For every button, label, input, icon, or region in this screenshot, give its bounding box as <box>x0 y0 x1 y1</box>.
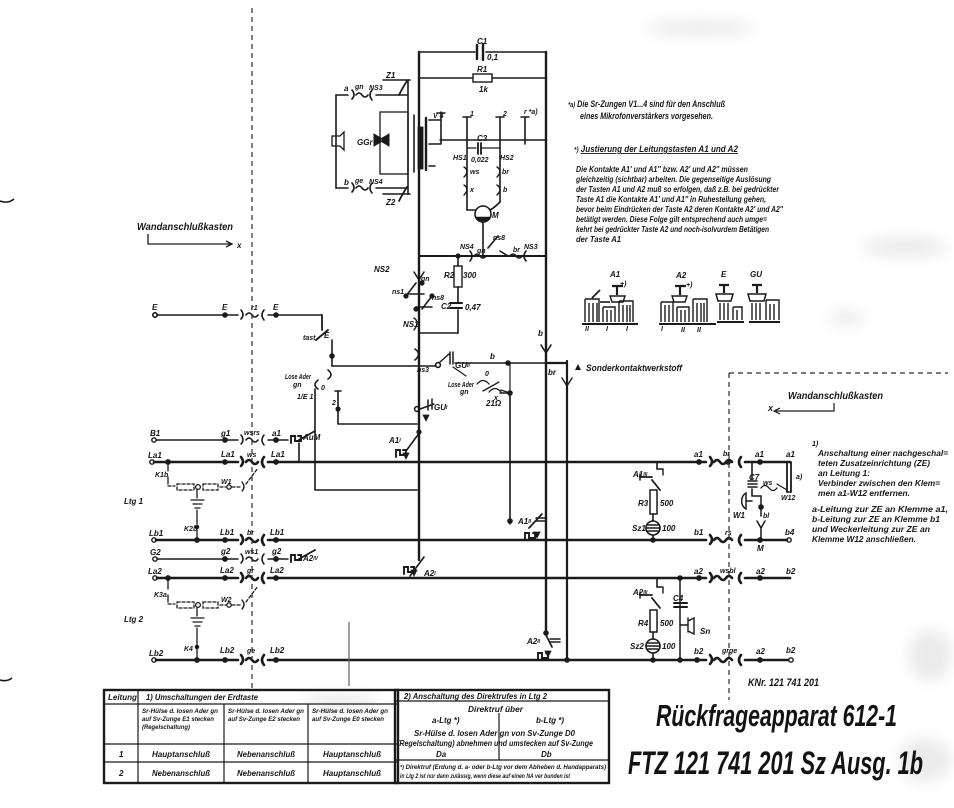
svg-text:K1b: K1b <box>155 472 169 479</box>
svg-text:Z2: Z2 <box>385 198 396 207</box>
svg-text:ns8: ns8 <box>493 235 505 242</box>
svg-text:La2: La2 <box>220 566 234 575</box>
svg-text:ws: ws <box>763 480 772 487</box>
svg-text:1/E 1: 1/E 1 <box>297 394 313 401</box>
svg-text:bevor beim Eindrücken der Tast: bevor beim Eindrücken der Taste A2 deren… <box>576 204 784 214</box>
svg-text:500: 500 <box>660 499 674 508</box>
svg-text:a2: a2 <box>756 647 765 656</box>
svg-text:r *a): r *a) <box>524 109 538 116</box>
svg-text:FTZ 121 741 201 Sz Ausg. 1b: FTZ 121 741 201 Sz Ausg. 1b <box>628 745 923 781</box>
svg-text:g2: g2 <box>220 547 231 556</box>
svg-text:2: 2 <box>331 400 336 407</box>
svg-text:C1: C1 <box>477 37 488 46</box>
svg-text:b1: b1 <box>694 528 704 537</box>
svg-text:auf Sv-Zunge E1 stecken: auf Sv-Zunge E1 stecken <box>142 716 214 723</box>
svg-text:Sr-Hülse d. losen Ader gn v: Sr-Hülse d. losen Ader gn von Sv-Zunge D… <box>414 729 576 738</box>
svg-text:AuM: AuM <box>302 433 321 442</box>
svg-text:M: M <box>492 211 499 220</box>
svg-text:Hauptanschluß: Hauptanschluß <box>323 750 381 759</box>
svg-text:b-Ltg *): b-Ltg *) <box>536 716 564 725</box>
svg-text:Sz1: Sz1 <box>632 524 646 533</box>
svg-text:2: 2 <box>118 769 124 778</box>
svg-text:b: b <box>344 178 349 187</box>
svg-text:+): +) <box>686 282 693 289</box>
svg-text:R1: R1 <box>477 65 488 74</box>
svg-text:Da: Da <box>436 750 447 759</box>
svg-text:Taste A1 die Kontakte A1′ und: Taste A1 die Kontakte A1′ und A1″ in Ruh… <box>576 194 766 204</box>
svg-text:Sz2: Sz2 <box>630 642 644 651</box>
svg-text:Ltg 2: Ltg 2 <box>124 615 144 624</box>
svg-text:a-Ltg *): a-Ltg *) <box>432 716 460 725</box>
svg-text:a: a <box>344 84 349 93</box>
svg-text:a1: a1 <box>272 429 281 438</box>
svg-text:21Ω: 21Ω <box>485 399 502 408</box>
svg-text:Lose Ader: Lose Ader <box>285 374 312 381</box>
svg-text:br: br <box>548 368 557 377</box>
svg-text:2: 2 <box>502 111 507 118</box>
svg-text:0,1: 0,1 <box>487 53 499 62</box>
svg-text:g2: g2 <box>271 547 282 556</box>
svg-text:Hauptanschluß: Hauptanschluß <box>323 769 381 778</box>
svg-text:gn: gn <box>476 248 486 255</box>
svg-text:gr: gr <box>246 568 255 575</box>
svg-text:La1: La1 <box>221 450 235 459</box>
svg-text:La1: La1 <box>271 450 285 459</box>
svg-text:x: x <box>767 403 774 413</box>
svg-text:an Leitung 1:: an Leitung 1: <box>818 468 870 478</box>
svg-text:Db: Db <box>541 750 552 759</box>
svg-text:500: 500 <box>660 619 674 628</box>
svg-text:und Weckerleitung zur ZE an: und Weckerleitung zur ZE an <box>812 524 930 534</box>
svg-text:auf Sv-Zunge E2 stecken: auf Sv-Zunge E2 stecken <box>228 716 300 723</box>
svg-text:NS4: NS4 <box>460 244 474 251</box>
svg-text:b: b <box>503 187 508 194</box>
svg-text:0,47: 0,47 <box>465 303 481 312</box>
svg-text:gn: gn <box>459 389 469 396</box>
svg-text:rs: rs <box>725 530 732 537</box>
svg-text:Sr-Hülse d. losen Ader gn: Sr-Hülse d. losen Ader gn <box>142 708 218 715</box>
svg-text:b: b <box>538 329 543 338</box>
svg-text:B1: B1 <box>150 429 161 438</box>
svg-text:ws1: ws1 <box>245 549 258 556</box>
svg-text:GU: GU <box>750 270 762 279</box>
svg-text:1: 1 <box>470 111 474 118</box>
svg-text:La1: La1 <box>148 451 162 460</box>
svg-text:a1: a1 <box>786 450 795 459</box>
svg-text:G2: G2 <box>150 548 161 557</box>
svg-text:eines Mikrofonverstärkers vorg: eines Mikrofonverstärkers vorgesehen. <box>580 111 713 121</box>
svg-text:Verbinder zwischen den Klem=: Verbinder zwischen den Klem= <box>818 478 940 488</box>
svg-text:0,022: 0,022 <box>471 157 489 164</box>
svg-text:g1: g1 <box>220 429 231 438</box>
svg-text:K2b: K2b <box>184 526 198 533</box>
svg-text:a1: a1 <box>694 450 703 459</box>
svg-text:1) Umschaltungen der Erdtast: 1) Umschaltungen der Erdtaste <box>146 692 258 702</box>
svg-text:a2: a2 <box>694 567 703 576</box>
svg-text:Sr-Hülse d. losen Ader gn: Sr-Hülse d. losen Ader gn <box>228 708 304 715</box>
svg-text:W12: W12 <box>781 495 796 502</box>
svg-text:b4: b4 <box>785 528 795 537</box>
svg-text:E: E <box>324 331 330 340</box>
svg-text:wsrs: wsrs <box>244 430 260 437</box>
svg-text:Wandanschlußkasten: Wandanschlußkasten <box>137 222 233 233</box>
svg-text:Sr-Hülse d. losen Ader gn: Sr-Hülse d. losen Ader gn <box>312 708 388 715</box>
svg-text:betätigt werden. Diese Folge g: betätigt werden. Diese Folge gilt entspr… <box>576 214 767 224</box>
svg-text:GGr: GGr <box>357 138 373 147</box>
svg-text:Rückfrageapparat 612-1: Rückfrageapparat 612-1 <box>656 698 897 733</box>
svg-text:Die Kontakte A1′ und A1″ bzw.: Die Kontakte A1′ und A1″ bzw. A2′ und A2… <box>576 164 748 174</box>
svg-text:GUI: GUI <box>434 403 448 412</box>
svg-text:Z1: Z1 <box>385 71 396 80</box>
svg-text:tast: tast <box>303 335 316 342</box>
svg-text:b2: b2 <box>694 647 704 656</box>
svg-text:E: E <box>273 303 279 312</box>
svg-text:Klemme W12 anschließen.: Klemme W12 anschließen. <box>812 534 916 544</box>
svg-text:gn: gn <box>292 382 302 389</box>
svg-text:(Regelschaltung): (Regelschaltung) <box>142 724 190 731</box>
svg-text:der Tasten A1 und A2 muß so er: der Tasten A1 und A2 muß so erfolgen, da… <box>576 184 780 194</box>
svg-text:NS3: NS3 <box>369 85 383 92</box>
svg-text:a-Leitung zur ZE an Klemme a1,: a-Leitung zur ZE an Klemme a1, <box>812 504 948 514</box>
svg-text:der Taste A1: der Taste A1 <box>576 234 621 244</box>
svg-text:Lb2: Lb2 <box>220 646 235 655</box>
svg-text:NS1: NS1 <box>403 320 419 329</box>
svg-text:ns8: ns8 <box>432 295 444 302</box>
svg-text:ge: ge <box>246 648 255 655</box>
svg-text:W1: W1 <box>733 511 746 520</box>
svg-text:grge: grge <box>721 648 737 655</box>
svg-text:Lb1: Lb1 <box>270 528 285 537</box>
svg-text:Direktruf über: Direktruf über <box>468 705 524 714</box>
svg-text:teten Zusatzeinrichtung (ZE): teten Zusatzeinrichtung (ZE) <box>818 458 930 468</box>
svg-text:C3: C3 <box>477 134 488 143</box>
svg-text:NS4: NS4 <box>369 179 383 186</box>
svg-text:x: x <box>236 241 242 250</box>
svg-text:Sn: Sn <box>700 627 710 636</box>
svg-text:C4: C4 <box>673 594 684 603</box>
svg-text:100: 100 <box>662 642 676 651</box>
svg-text:HS2: HS2 <box>500 155 514 162</box>
svg-text:C7: C7 <box>749 473 760 482</box>
svg-text:A1: A1 <box>609 270 621 279</box>
svg-text:E: E <box>152 303 158 312</box>
svg-text:C2: C2 <box>441 302 452 311</box>
svg-text:r1: r1 <box>251 305 258 312</box>
svg-text:Hauptanschluß: Hauptanschluß <box>152 750 210 759</box>
svg-text:Lb1: Lb1 <box>149 529 164 538</box>
svg-text:2) Anschaltung des Direktrufes: 2) Anschaltung des Direktrufes in Ltg 2 <box>403 691 547 701</box>
svg-text:Nebenanschluß: Nebenanschluß <box>152 769 210 778</box>
svg-text:auf Sv-Zunge E0 stecken: auf Sv-Zunge E0 stecken <box>312 716 384 723</box>
svg-text:in Ltg 2 ist nur dann zulässig: in Ltg 2 ist nur dann zulässig, wenn die… <box>400 773 571 780</box>
svg-text:Nebenanschluß: Nebenanschluß <box>237 750 295 759</box>
svg-text:Lb2: Lb2 <box>149 649 164 658</box>
svg-text:Sonderkontaktwerkstoff: Sonderkontaktwerkstoff <box>586 363 683 373</box>
svg-text:ws: ws <box>470 169 479 176</box>
svg-text:Anschaltung einer nachgeschal=: Anschaltung einer nachgeschal= <box>817 448 948 458</box>
svg-text:1: 1 <box>119 750 124 759</box>
svg-text:gn: gn <box>354 84 364 91</box>
svg-text:b: b <box>490 352 495 361</box>
svg-text:a1: a1 <box>755 450 764 459</box>
svg-text:Nebenanschluß: Nebenanschluß <box>237 769 295 778</box>
svg-text:*a) Die Sr-Zungen V1...4 sind: *a) Die Sr-Zungen V1...4 sind für den An… <box>568 99 725 109</box>
svg-text:K4: K4 <box>184 646 193 653</box>
svg-text:a2: a2 <box>756 567 765 576</box>
svg-text:men a1-W12 entfernen.: men a1-W12 entfernen. <box>818 488 910 498</box>
svg-text:R4: R4 <box>638 619 649 628</box>
svg-text:NS3: NS3 <box>524 244 538 251</box>
svg-text:b2: b2 <box>786 567 796 576</box>
svg-text:a): a) <box>796 474 803 481</box>
svg-text:Lb1: Lb1 <box>220 528 235 537</box>
svg-text:b2: b2 <box>786 646 796 655</box>
svg-text:R3: R3 <box>638 499 649 508</box>
svg-text:HS1: HS1 <box>453 155 467 162</box>
svg-text:*) Justierung der Leitungstast: *) Justierung der Leitungstasten A1 und … <box>574 144 738 154</box>
svg-text:Lb2: Lb2 <box>270 646 285 655</box>
svg-text:gleichzeitig (sichtbar) arbeit: gleichzeitig (sichtbar) arbeiten. Die ge… <box>575 174 771 184</box>
svg-text:+): +) <box>620 281 627 288</box>
svg-text:Ltg 1: Ltg 1 <box>124 497 144 506</box>
svg-text:1k: 1k <box>479 85 488 94</box>
svg-text:A2: A2 <box>675 271 687 280</box>
svg-text:*) Direktruf (Erdung d. a- ode: *) Direktruf (Erdung d. a- oder b-Ltg vo… <box>400 764 606 771</box>
svg-text:300: 300 <box>463 271 477 280</box>
svg-text:La2: La2 <box>270 566 284 575</box>
svg-text:ws: ws <box>247 452 256 459</box>
svg-text:Wandanschlußkasten: Wandanschlußkasten <box>788 390 883 402</box>
svg-text:M: M <box>757 544 764 553</box>
svg-text:0: 0 <box>321 385 325 392</box>
svg-text:ns3: ns3 <box>417 367 429 374</box>
svg-text:W2: W2 <box>221 597 232 604</box>
svg-text:KNr. 121 741 201: KNr. 121 741 201 <box>748 677 819 689</box>
svg-text:bl: bl <box>763 513 770 520</box>
svg-text:W1: W1 <box>221 479 232 486</box>
svg-text:NS2: NS2 <box>374 265 390 274</box>
svg-text:gn: gn <box>420 276 430 283</box>
svg-text:kehrt bei gedrückter Taste A2: kehrt bei gedrückter Taste A2 und noch-i… <box>576 224 769 234</box>
svg-text:b-Leitung zur ZE an Klemme b1: b-Leitung zur ZE an Klemme b1 <box>812 514 940 524</box>
svg-text:K3a: K3a <box>154 592 167 599</box>
svg-text:R2: R2 <box>444 271 455 280</box>
svg-text:V 4: V 4 <box>433 113 444 120</box>
svg-text:Lose Ader: Lose Ader <box>448 382 475 389</box>
svg-text:La2: La2 <box>148 567 162 576</box>
svg-text:Leitung: Leitung <box>108 693 137 702</box>
svg-text:100: 100 <box>662 524 676 533</box>
svg-text:E: E <box>222 303 228 312</box>
svg-text:E: E <box>721 270 727 279</box>
svg-text:0: 0 <box>485 371 489 378</box>
svg-text:ns1: ns1 <box>392 289 404 296</box>
svg-text:1): 1) <box>812 441 819 448</box>
svg-text:(Regelschaltung) abnehmen und: (Regelschaltung) abnehmen und umstecken … <box>397 739 593 748</box>
svg-text:wsbl: wsbl <box>720 568 737 575</box>
svg-text:ge: ge <box>354 178 363 185</box>
